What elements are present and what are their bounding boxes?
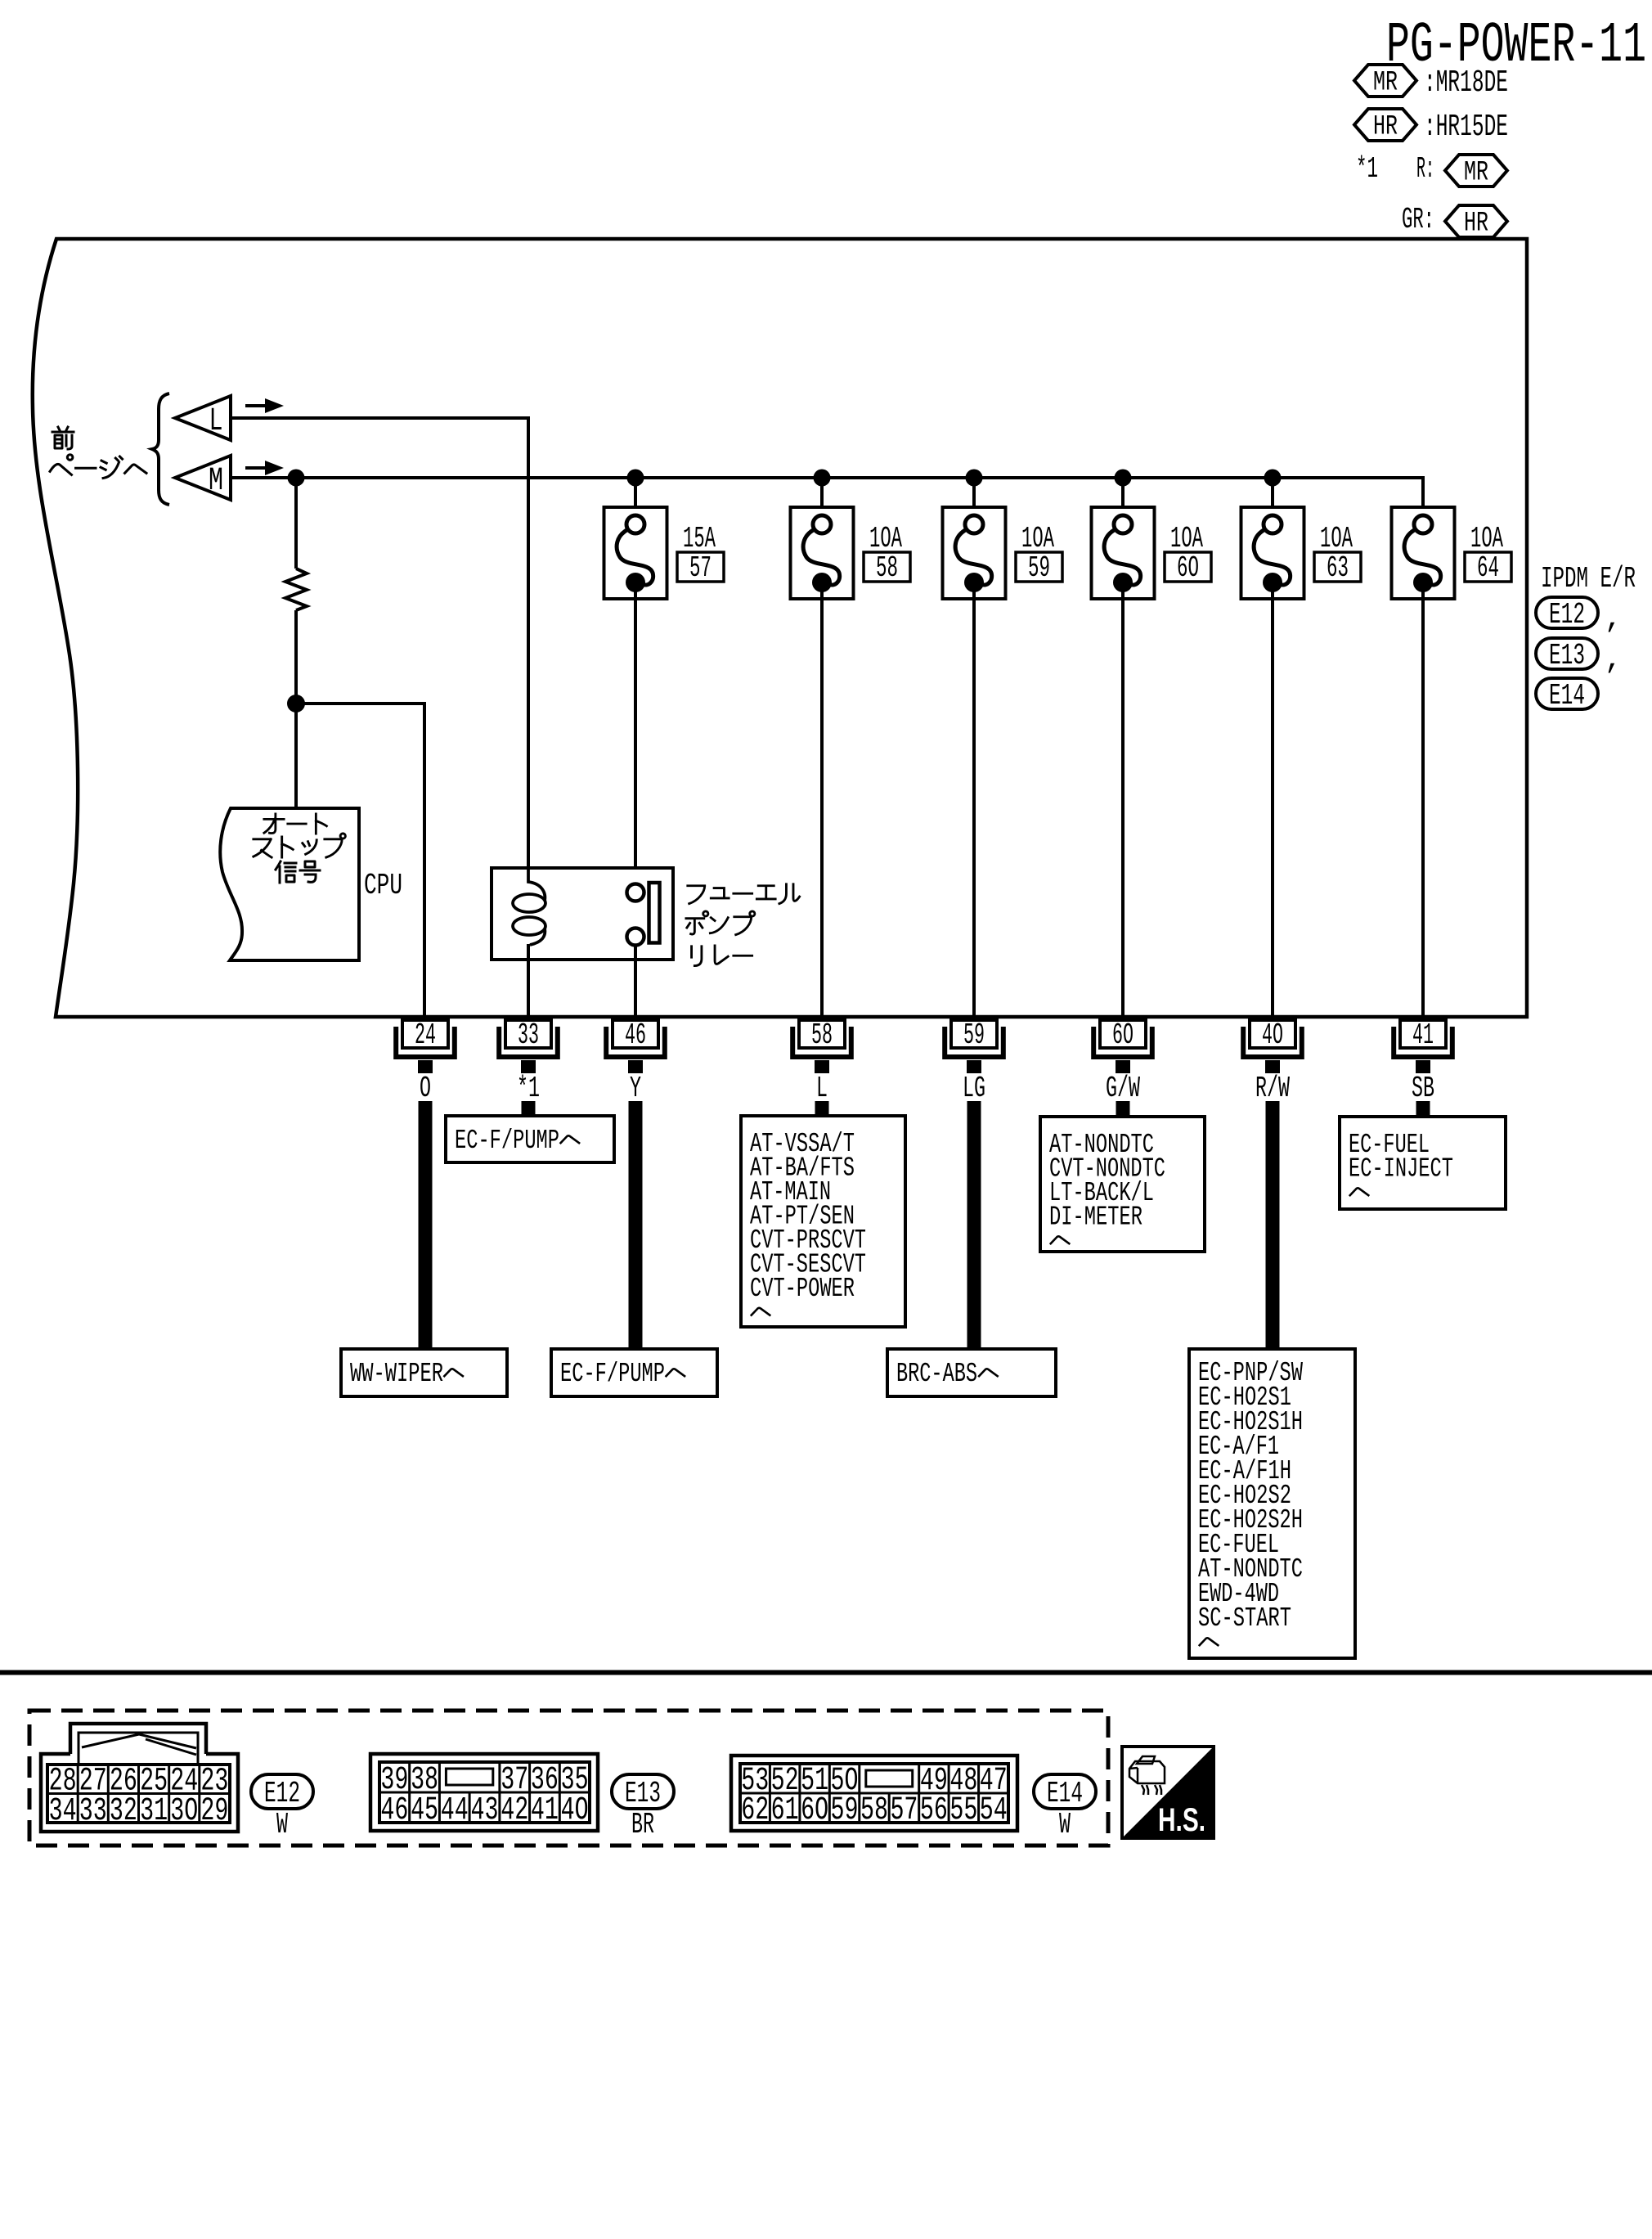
svg-text:EC-F/PUMP: EC-F/PUMP xyxy=(560,1359,665,1389)
destination box EC-F/PUMP (pin 33) xyxy=(446,1116,614,1162)
label 前ページへ (to previous page) xyxy=(50,427,146,478)
connector E14 pinout drawing xyxy=(731,1756,1017,1831)
IPDM pin 58 connector xyxy=(792,1020,851,1057)
connector ref E12 (right side) xyxy=(1536,597,1598,632)
pin 46 terminal tab xyxy=(628,1060,643,1073)
svg-text:EC-F/PUMP: EC-F/PUMP xyxy=(455,1126,559,1156)
connector E14 label oval xyxy=(1034,1774,1096,1810)
svg-text:W: W xyxy=(276,1808,288,1841)
svg-text:1OA: 1OA xyxy=(1320,522,1353,555)
connector E12 pinout drawing xyxy=(41,1724,238,1832)
pin 33 terminal tab xyxy=(521,1060,536,1073)
page-link triangle L xyxy=(175,396,231,440)
destination box EC list (pin 40) xyxy=(1189,1349,1355,1658)
svg-text:41: 41 xyxy=(531,1792,559,1829)
IPDM pin 59 connector xyxy=(945,1020,1003,1057)
page-link triangle M xyxy=(175,456,231,500)
harness wire from pin 60 xyxy=(1116,1101,1130,1117)
wire: relay contact to pin 46 xyxy=(634,960,637,1020)
svg-text:58: 58 xyxy=(811,1018,833,1052)
svg-text:G/W: G/W xyxy=(1106,1072,1140,1105)
fuse 63 (10A) xyxy=(1241,470,1304,600)
svg-text:33: 33 xyxy=(79,1793,107,1830)
svg-text:1OA: 1OA xyxy=(1021,522,1054,555)
pin 40 terminal tab xyxy=(1265,1060,1280,1073)
svg-text:IPDM E/R: IPDM E/R xyxy=(1541,562,1636,596)
svg-text:SB: SB xyxy=(1412,1072,1434,1105)
legend hexagon MR (MR18DE) xyxy=(1354,65,1416,99)
fuse 58 rating and number labels xyxy=(869,522,902,555)
svg-text:1OA: 1OA xyxy=(1470,522,1503,555)
svg-text:55: 55 xyxy=(949,1792,977,1829)
wire: bus to resistor to CPU xyxy=(294,478,298,808)
svg-text:SC-START: SC-START xyxy=(1198,1603,1291,1634)
svg-text::HR15DE: :HR15DE xyxy=(1424,110,1508,145)
svg-text:E12: E12 xyxy=(264,1777,300,1810)
svg-text:HR: HR xyxy=(1464,209,1488,240)
junction node above CPU xyxy=(287,695,305,713)
harness wire from pin 24 xyxy=(419,1101,433,1349)
svg-text:MR: MR xyxy=(1464,158,1488,189)
svg-text:59: 59 xyxy=(1028,551,1050,585)
svg-text:GR:: GR: xyxy=(1402,203,1434,236)
svg-text:34: 34 xyxy=(49,1793,77,1830)
svg-text:MR: MR xyxy=(1373,68,1398,99)
fuse 60 rating and number labels xyxy=(1170,522,1203,555)
svg-text:E14: E14 xyxy=(1549,679,1585,713)
fuse 59 (10A) xyxy=(943,470,1006,600)
svg-text:6O: 6O xyxy=(1112,1018,1134,1052)
harness wire from pin 41 xyxy=(1416,1101,1430,1117)
wire: relay coil to pin 33 xyxy=(527,960,530,1020)
wire color label Y xyxy=(630,1072,641,1105)
svg-text:31: 31 xyxy=(140,1793,168,1830)
svg-text:62: 62 xyxy=(741,1792,769,1829)
svg-text:E13: E13 xyxy=(625,1777,661,1810)
fuse 64 rating and number labels xyxy=(1470,522,1503,555)
svg-text:58: 58 xyxy=(860,1792,888,1829)
svg-text:57: 57 xyxy=(890,1792,918,1829)
wire: junction to IPDM pin 24 xyxy=(296,704,424,1020)
wire: fuse output to pin 60 xyxy=(1121,582,1125,1020)
IPDM pin 33 connector xyxy=(499,1020,558,1057)
IPDM pin 40 connector xyxy=(1243,1020,1302,1057)
svg-text:Y: Y xyxy=(630,1072,641,1105)
wire: fuse output to pin 58 xyxy=(820,582,824,1020)
wire: fuse output to pin 59 xyxy=(972,582,976,1020)
svg-text:*1: *1 xyxy=(1356,152,1378,186)
svg-text:L: L xyxy=(816,1072,828,1105)
wire: fuse 57 output to relay contact xyxy=(634,582,637,884)
svg-text:54: 54 xyxy=(980,1792,1008,1829)
CPU label xyxy=(364,869,402,902)
IPDM E/R enclosure box (wavy left edge) xyxy=(33,239,1527,1017)
destination box AT-NONDTC list (pin 60) xyxy=(1040,1117,1205,1252)
harness wire from pin 46 xyxy=(629,1101,643,1349)
destination box WW-WIPER (pin 24) xyxy=(341,1349,507,1396)
IPDM pin 60 connector xyxy=(1093,1020,1152,1057)
IPDM pin 46 connector xyxy=(606,1020,665,1057)
CPU block text オートストップ信号 xyxy=(254,814,346,883)
svg-text:CPU: CPU xyxy=(364,869,402,902)
svg-text:*1: *1 xyxy=(517,1072,540,1105)
svg-text:32: 32 xyxy=(110,1793,137,1830)
fuse 58 (10A) xyxy=(791,470,854,600)
wire: L triangle to fuel pump relay coil xyxy=(231,418,528,868)
pin 60 terminal tab xyxy=(1116,1060,1130,1073)
svg-text:1OA: 1OA xyxy=(869,522,902,555)
relay coil xyxy=(513,868,545,945)
connector E12 label oval xyxy=(251,1774,313,1810)
fuel pump relay box xyxy=(492,868,673,960)
svg-text:24: 24 xyxy=(415,1018,436,1052)
svg-text:41: 41 xyxy=(1412,1018,1434,1052)
svg-text:58: 58 xyxy=(876,551,898,585)
fuse 60 (10A) xyxy=(1092,470,1155,600)
svg-text:33: 33 xyxy=(518,1018,539,1052)
svg-text:61: 61 xyxy=(771,1792,799,1829)
svg-text:59: 59 xyxy=(963,1018,985,1052)
svg-text:57: 57 xyxy=(689,551,712,585)
legend text :HR15DE xyxy=(1424,110,1508,145)
svg-text:6O: 6O xyxy=(801,1792,828,1829)
junction node on bus at resistor xyxy=(288,470,305,487)
harness wire from pin 59 xyxy=(967,1101,981,1349)
svg-text:R/W: R/W xyxy=(1255,1072,1290,1105)
pin 58 terminal tab xyxy=(815,1060,829,1073)
fuse 57 rating and number labels xyxy=(683,522,716,555)
svg-text:29: 29 xyxy=(200,1793,228,1830)
wire color label G/W xyxy=(1106,1072,1140,1105)
relay contact xyxy=(627,883,660,946)
svg-text:59: 59 xyxy=(831,1792,859,1829)
connector ref E13 (right side) xyxy=(1536,638,1598,672)
svg-text:3O: 3O xyxy=(170,1793,198,1830)
wire color label R/W xyxy=(1255,1072,1290,1105)
wire color label LG xyxy=(963,1072,985,1105)
fuse 57 (15A) xyxy=(604,470,667,600)
H.S. emblem connector icon xyxy=(1129,1756,1165,1795)
svg-text:46: 46 xyxy=(625,1018,646,1052)
legend text :MR18DE xyxy=(1424,65,1508,101)
svg-text:45: 45 xyxy=(411,1792,438,1829)
destination box BRC-ABS (pin 59) xyxy=(887,1349,1056,1396)
title PG-POWER-11 xyxy=(1386,14,1646,79)
svg-text:44: 44 xyxy=(441,1792,469,1829)
svg-text:4O: 4O xyxy=(1262,1018,1283,1052)
IPDM pin 41 connector xyxy=(1394,1020,1452,1057)
svg-text:W: W xyxy=(1059,1808,1071,1841)
svg-text:EC-INJECT: EC-INJECT xyxy=(1349,1154,1453,1185)
pin 24 terminal tab xyxy=(418,1060,433,1073)
svg-text:HR: HR xyxy=(1373,112,1398,143)
svg-text::MR18DE: :MR18DE xyxy=(1424,65,1508,101)
arrow at triangle L xyxy=(245,404,265,407)
IPDM E/R label xyxy=(1541,562,1636,596)
wire color label O xyxy=(420,1072,431,1105)
fuse 59 rating and number labels xyxy=(1021,522,1054,555)
svg-text:46: 46 xyxy=(380,1792,408,1829)
svg-text:1OA: 1OA xyxy=(1170,522,1203,555)
svg-text:L: L xyxy=(209,403,223,440)
fuse 64 (10A) xyxy=(1392,507,1455,599)
legend hexagon HR (HR15DE) xyxy=(1354,109,1416,143)
destination box EC-FUEL list (pin 41) xyxy=(1340,1117,1506,1209)
pin 41 terminal tab xyxy=(1416,1060,1430,1073)
resistor (zigzag) xyxy=(285,569,307,610)
svg-text:WW-WIPER: WW-WIPER xyxy=(350,1359,443,1389)
wire color label *1 xyxy=(517,1072,540,1105)
destination box AT list (pin 58) xyxy=(741,1116,905,1327)
H.S. view emblem xyxy=(1122,1747,1214,1838)
relay coil wires xyxy=(527,944,530,960)
harness wire from pin 58 xyxy=(815,1101,829,1116)
svg-text:,: , xyxy=(1605,643,1623,677)
connector E13 pinout drawing xyxy=(370,1754,598,1831)
svg-text:4O: 4O xyxy=(561,1792,589,1829)
svg-text:BR: BR xyxy=(631,1808,654,1841)
svg-text:BRC-ABS: BRC-ABS xyxy=(896,1359,977,1389)
brace for page links xyxy=(152,393,169,505)
svg-text:56: 56 xyxy=(920,1792,948,1829)
CPU block (auto stop signal) xyxy=(220,808,359,960)
svg-text:H.S.: H.S. xyxy=(1158,1802,1205,1838)
svg-text:42: 42 xyxy=(501,1792,528,1829)
harness wire from pin 33 xyxy=(522,1101,536,1116)
svg-text:15A: 15A xyxy=(683,522,716,555)
svg-text:DI-METER: DI-METER xyxy=(1049,1203,1142,1233)
dashed connector-detail box xyxy=(29,1711,1108,1846)
arrow at triangle M xyxy=(245,466,265,470)
note *1 R: MR xyxy=(1356,152,1434,186)
svg-text:O: O xyxy=(420,1072,431,1105)
svg-text:64: 64 xyxy=(1477,551,1499,585)
svg-text:63: 63 xyxy=(1327,551,1349,585)
svg-text:E13: E13 xyxy=(1549,639,1585,672)
destination box EC-F/PUMP (pin 46) xyxy=(551,1349,717,1396)
svg-text:E12: E12 xyxy=(1549,598,1585,632)
svg-text:LG: LG xyxy=(963,1072,985,1105)
pin 59 terminal tab xyxy=(967,1060,981,1073)
wire: fuse output to pin 41 xyxy=(1421,582,1425,1020)
harness wire from pin 40 xyxy=(1266,1101,1280,1350)
wire color label SB xyxy=(1412,1072,1434,1105)
svg-text:6O: 6O xyxy=(1177,551,1199,585)
svg-text:CVT-POWER: CVT-POWER xyxy=(750,1274,855,1304)
connector E13 label oval xyxy=(612,1774,674,1810)
note GR: HR xyxy=(1402,203,1434,236)
separator line xyxy=(0,1670,1652,1675)
svg-text:E14: E14 xyxy=(1047,1777,1083,1810)
wire: fuse output to pin 40 xyxy=(1271,582,1274,1020)
svg-text:R:: R: xyxy=(1416,152,1434,186)
svg-text:,: , xyxy=(1605,602,1623,636)
wire: M triangle power bus xyxy=(231,478,1423,514)
relay label フューエルポンプリレー xyxy=(686,884,800,966)
connector ref E14 (right side) xyxy=(1536,678,1598,713)
fuse 63 rating and number labels xyxy=(1320,522,1353,555)
svg-text:43: 43 xyxy=(471,1792,499,1829)
IPDM pin 24 connector xyxy=(396,1020,455,1057)
svg-text:M: M xyxy=(209,463,223,500)
wire color label L xyxy=(816,1072,828,1105)
